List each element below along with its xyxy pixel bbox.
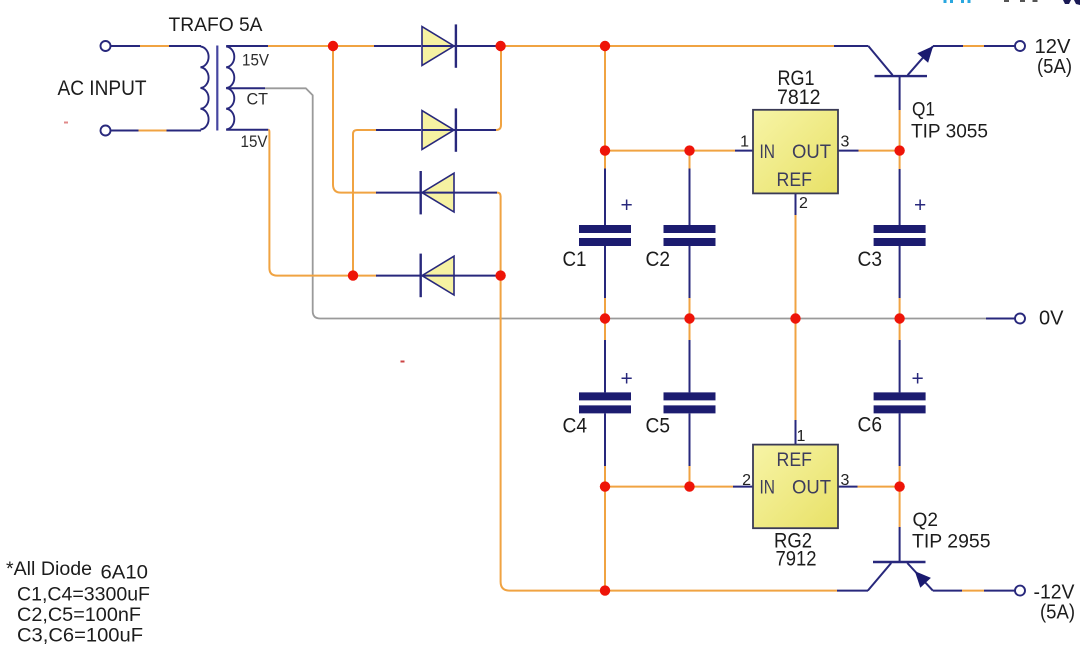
terminal: AC input bottom bbox=[101, 126, 111, 136]
transformer TRAFO 5A primary winding bbox=[201, 47, 209, 130]
wire: C6 bottom lead bbox=[899, 413, 901, 486]
svg-text:TIP 2955: TIP 2955 bbox=[912, 532, 991, 553]
junction dot: 0V / C1 bbox=[600, 313, 610, 323]
svg-text:+: + bbox=[621, 368, 633, 391]
transformer secondary winding bbox=[226, 47, 234, 130]
svg-text:6A10: 6A10 bbox=[101, 563, 149, 584]
wire: secondary top 15V tap to node A bbox=[226, 45, 377, 47]
wire: Q1 base stem bbox=[899, 77, 901, 151]
svg-text:C4: C4 bbox=[563, 415, 588, 438]
svg-text:(5A): (5A) bbox=[1040, 601, 1075, 624]
svg-text:C6: C6 bbox=[858, 414, 883, 437]
svg-text:REF: REF bbox=[777, 450, 813, 471]
svg-text:7812: 7812 bbox=[777, 86, 821, 109]
svg-text:1: 1 bbox=[797, 428, 806, 445]
junction dot: 0V / C3 bbox=[894, 313, 904, 323]
svg-text:15V: 15V bbox=[241, 132, 269, 151]
wire: D2 anode lead bbox=[376, 129, 421, 131]
wire: C1 bottom lead bbox=[604, 246, 606, 319]
transistor Q2 bbox=[868, 562, 933, 591]
wire: 0V rail terminal stub bbox=[986, 318, 1016, 320]
wire: secondary bottom 15V tap down to diode row bbox=[226, 130, 377, 276]
junction dot: bottom 15V / D4 bbox=[348, 270, 358, 280]
wire: RG2 input row bbox=[605, 486, 753, 488]
wire: RG2 output to Q2 base node bbox=[838, 486, 900, 488]
svg-text:2: 2 bbox=[742, 472, 751, 489]
node A junction dot bbox=[328, 41, 338, 51]
wire: AC input top lead bbox=[110, 45, 201, 47]
wire: RG2 pin1 REF up to 0V bbox=[795, 319, 797, 445]
wire: C3 top lead bbox=[899, 151, 901, 226]
svg-text:+: + bbox=[912, 368, 924, 391]
wire: C1 top lead bbox=[604, 151, 606, 226]
junction dot: negative rail / C4 bbox=[600, 585, 610, 595]
svg-text:C3,C6=100uF: C3,C6=100uF bbox=[17, 626, 143, 647]
artifact: cropped toolbar marks top right bbox=[944, 0, 1080, 5]
svg-text:Q2: Q2 bbox=[913, 510, 939, 531]
wire: CT gray wire to 0V rail bbox=[226, 88, 986, 318]
wire: D3 anode down to negative junction bbox=[455, 193, 501, 276]
wire: positive rail drop to C1 node bbox=[604, 46, 606, 151]
wire: RG1 output to Q1 base node bbox=[838, 150, 900, 152]
wire: C5 top lead bbox=[689, 319, 691, 393]
wire: D4 cathode lead bbox=[376, 275, 421, 277]
terminal: -12V output bbox=[1015, 586, 1025, 596]
wire: C6 top lead bbox=[899, 319, 901, 393]
regulator RG2 7912 body bbox=[753, 445, 838, 529]
svg-text:C1: C1 bbox=[563, 248, 587, 271]
svg-text:15V: 15V bbox=[242, 51, 270, 70]
wire: C4 top lead bbox=[604, 319, 606, 393]
wire: D1 cathode lead to junction bbox=[457, 45, 498, 47]
wire: node A down to D3 cathode bbox=[333, 46, 377, 193]
wire: D3 cathode lead bbox=[376, 192, 421, 194]
wire: C2 bottom lead bbox=[689, 246, 691, 319]
wire: Q1 emitter to 12V terminal bbox=[933, 45, 1016, 47]
junction dot: D1/D2 cathodes bbox=[495, 41, 505, 51]
svg-text:IN: IN bbox=[760, 478, 776, 499]
wire: C5 bottom lead bbox=[689, 413, 691, 486]
svg-text:C3: C3 bbox=[858, 248, 883, 271]
junction dot: C5 bottom bbox=[684, 481, 694, 491]
svg-text:3: 3 bbox=[841, 134, 850, 151]
terminal: AC input top bbox=[101, 41, 111, 51]
wire: RG1 input row bbox=[605, 150, 753, 152]
junction dot: C4 bottom bbox=[600, 481, 610, 491]
svg-text:Q1: Q1 bbox=[912, 100, 935, 121]
junction dot: RG2 out / Q2 base bbox=[894, 481, 904, 491]
diode D2 bbox=[422, 108, 456, 151]
svg-text:2: 2 bbox=[799, 195, 808, 212]
wire: negative rail from diode junction to Q2 collector bbox=[501, 276, 868, 591]
capacitor C6 bbox=[874, 396, 926, 409]
svg-text:0V: 0V bbox=[1039, 307, 1064, 330]
svg-text:(5A): (5A) bbox=[1037, 55, 1072, 78]
wire: C3 bottom lead bbox=[899, 246, 901, 319]
transformer core bbox=[216, 46, 218, 131]
svg-text:C2: C2 bbox=[646, 248, 671, 271]
capacitor C5 bbox=[664, 396, 716, 409]
junction dot: RG1 out / Q1 base bbox=[894, 145, 904, 155]
svg-text:OUT: OUT bbox=[792, 478, 831, 499]
capacitor C3 bbox=[874, 229, 926, 242]
svg-text:AC INPUT: AC INPUT bbox=[58, 77, 147, 100]
artifact: small red dash center bbox=[401, 361, 405, 363]
svg-text:TIP 3055: TIP 3055 bbox=[911, 122, 988, 143]
svg-text:1: 1 bbox=[740, 134, 749, 151]
diode D3 bbox=[421, 171, 455, 214]
wire: D1 anode lead bbox=[374, 45, 421, 47]
svg-text:+: + bbox=[914, 194, 926, 217]
wire: Q2 emitter to -12V terminal bbox=[933, 590, 1016, 592]
wire: C4 bottom lead to negative rail bbox=[604, 413, 606, 590]
svg-text:C1,C4=3300uF: C1,C4=3300uF bbox=[17, 585, 150, 606]
diode D1 bbox=[422, 24, 456, 67]
junction dot: positive rail / C1 bbox=[600, 41, 610, 51]
junction dot: C1 top bbox=[600, 145, 610, 155]
svg-text:IN: IN bbox=[760, 142, 776, 163]
svg-text:3: 3 bbox=[841, 472, 850, 489]
terminal: 12V output bbox=[1015, 41, 1025, 51]
svg-text:CT: CT bbox=[247, 90, 269, 109]
capacitor C2 bbox=[664, 229, 716, 242]
svg-text:OUT: OUT bbox=[792, 142, 831, 163]
regulator RG1 7812 body bbox=[753, 110, 838, 194]
junction dot: 0V / REF pins bbox=[790, 313, 800, 323]
svg-text:C5: C5 bbox=[646, 415, 671, 438]
svg-text:C2,C5=100nF: C2,C5=100nF bbox=[17, 605, 141, 626]
wire: AC input bottom lead bbox=[110, 130, 201, 132]
wire: D4 anode lead bbox=[455, 275, 498, 277]
wire: positive rail from D1 junction to Q1 collector bbox=[501, 45, 868, 47]
junction dot: 0V / C2 bbox=[684, 313, 694, 323]
wire: C2 top lead bbox=[689, 151, 691, 226]
diode D4 bbox=[421, 254, 455, 298]
wire: D2 cathode up to positive junction bbox=[457, 46, 501, 130]
wire: Q2 base stem bbox=[899, 487, 901, 561]
junction dot: C2 top bbox=[684, 145, 694, 155]
capacitor C1 bbox=[579, 229, 631, 242]
wire: D2 anode down to diode-row junction bbox=[353, 130, 377, 276]
svg-text:+: + bbox=[621, 194, 633, 217]
terminal: 0V output bbox=[1015, 314, 1025, 324]
capacitor C4 bbox=[579, 396, 631, 409]
junction dot: D3/D4 anodes bbox=[495, 270, 505, 280]
transistor Q1 bbox=[868, 46, 933, 76]
svg-text:7912: 7912 bbox=[776, 548, 817, 571]
svg-text:TRAFO 5A: TRAFO 5A bbox=[169, 15, 263, 36]
wire: RG1 REF pin 2 down to 0V bbox=[795, 193, 797, 318]
svg-text:REF: REF bbox=[777, 170, 813, 191]
artifact: small red dash left bbox=[64, 122, 68, 124]
svg-text:*All Diode: *All Diode bbox=[6, 559, 92, 580]
